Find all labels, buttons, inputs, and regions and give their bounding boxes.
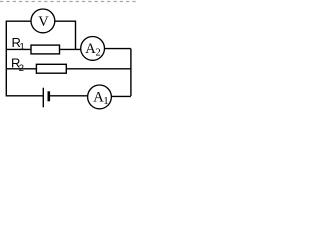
- svg-text:V: V: [38, 14, 49, 30]
- svg-text:2: 2: [96, 47, 101, 58]
- svg-text:2: 2: [19, 63, 24, 74]
- svg-text:1: 1: [103, 95, 109, 107]
- svg-text:1: 1: [20, 42, 25, 53]
